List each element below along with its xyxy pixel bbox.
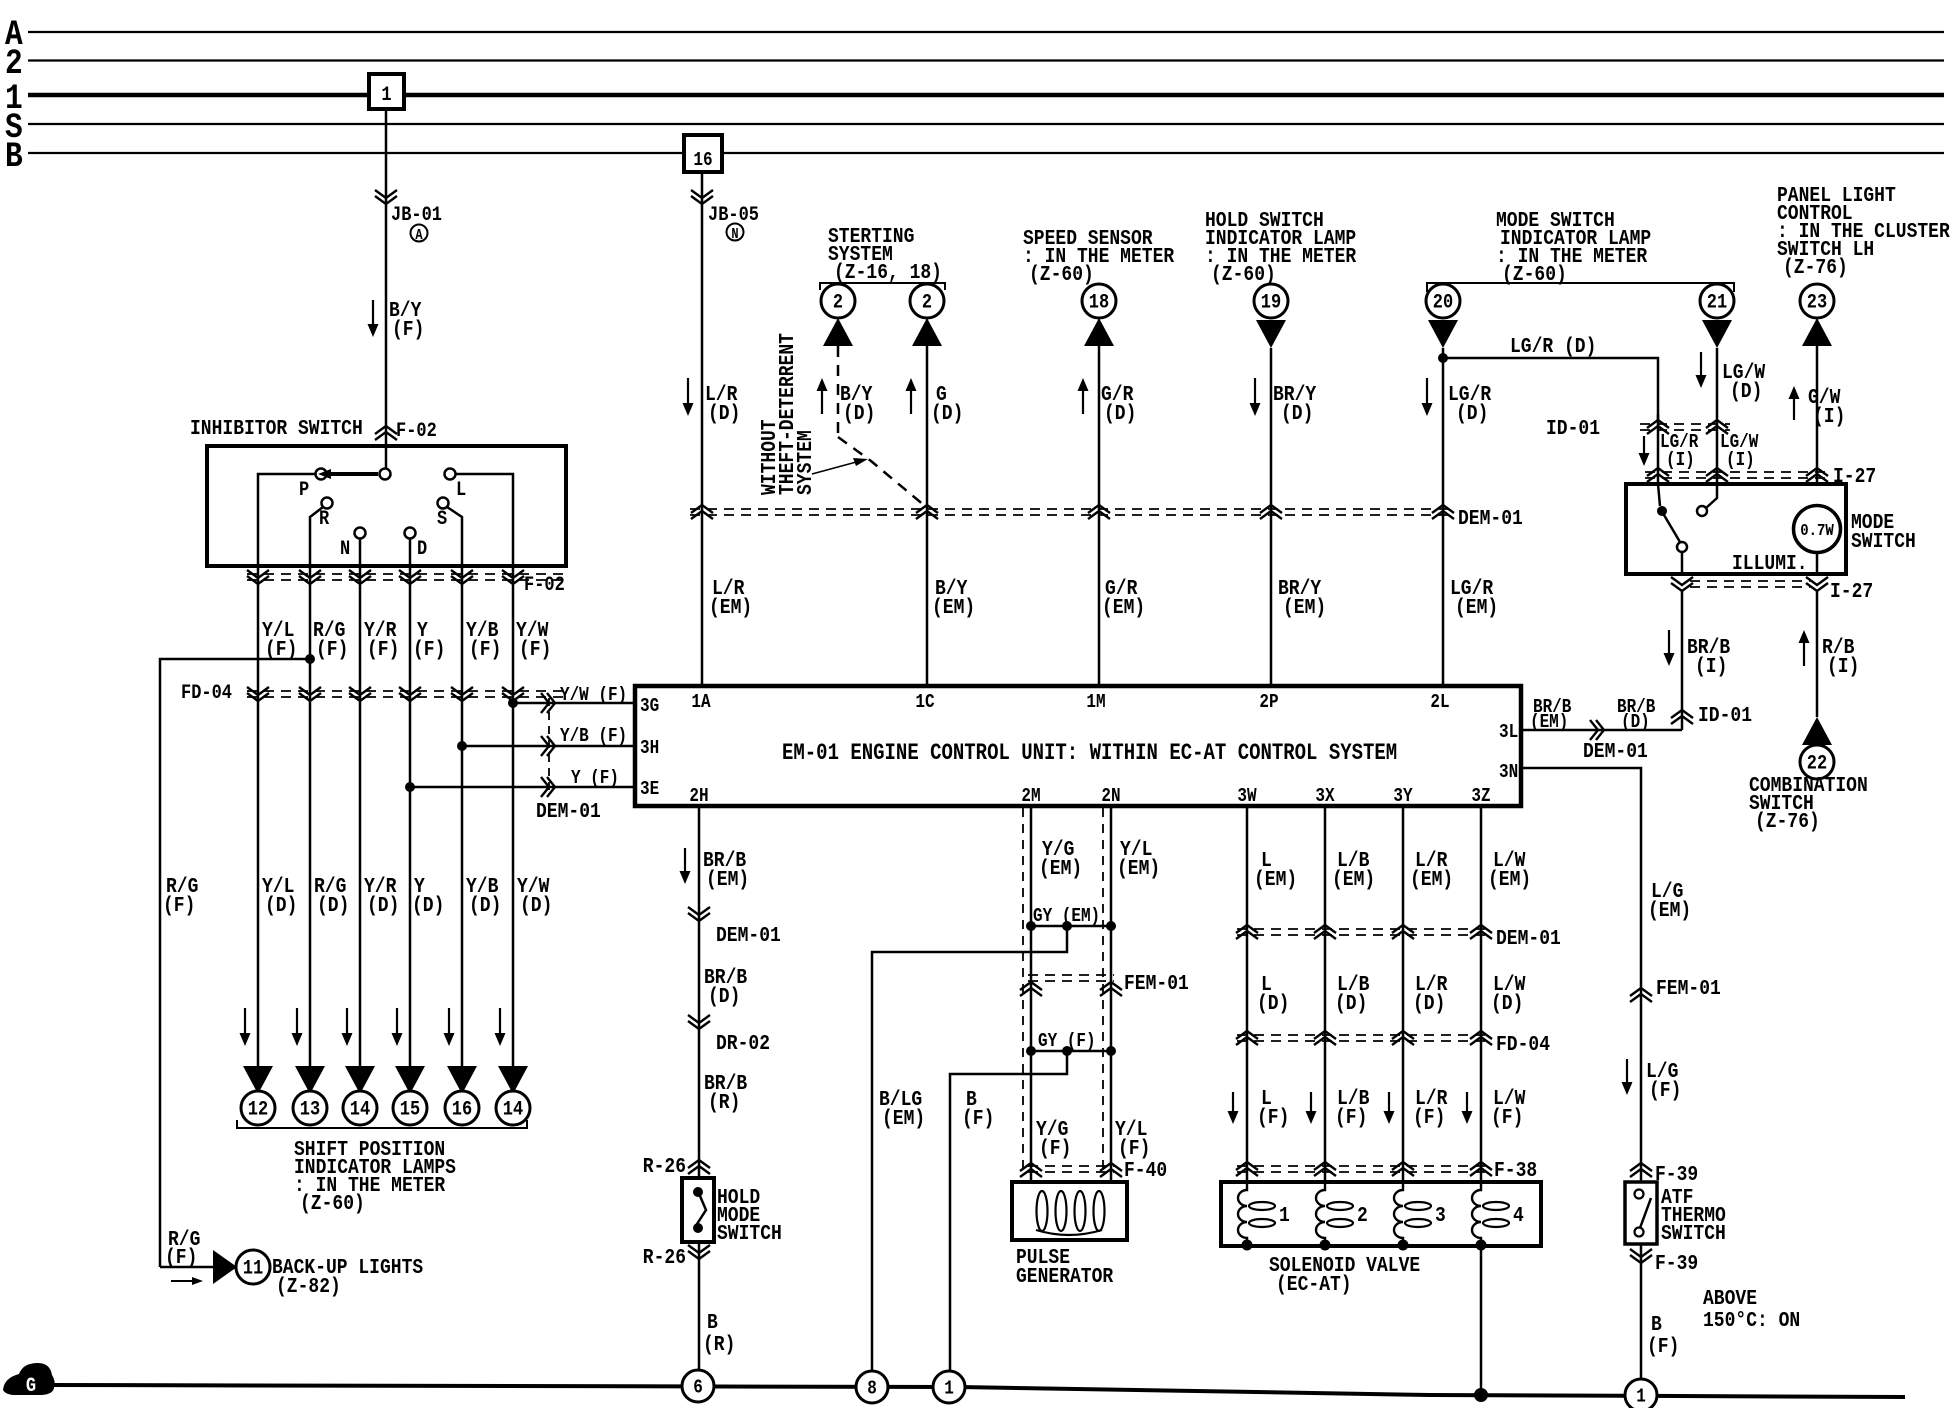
flow arrow lamp 14 bbox=[346, 1008, 348, 1037]
wire from pin 3N bbox=[1521, 768, 1641, 1182]
wire L to column 6 bbox=[456, 474, 513, 566]
terminal circle 22 bbox=[1800, 745, 1834, 779]
svg-text:SYSTEM: SYSTEM bbox=[793, 430, 818, 495]
svg-text:23: 23 bbox=[1807, 290, 1827, 314]
svg-text:(D): (D) bbox=[367, 893, 399, 918]
flow arrow L/W (F) bbox=[1466, 1092, 1468, 1115]
contact L bbox=[445, 469, 456, 480]
contact common bbox=[380, 469, 391, 480]
solenoid coil 1 bbox=[1238, 1182, 1247, 1244]
wire from 21 down to mode switch bbox=[1716, 348, 1719, 484]
ground circle 1 (pulse) bbox=[933, 1371, 965, 1403]
mode switch contact 2 open bbox=[1697, 506, 1707, 516]
svg-text:FEM-01: FEM-01 bbox=[1656, 976, 1721, 1001]
terminal circle 16 bbox=[445, 1091, 479, 1125]
svg-text:(EM): (EM) bbox=[1332, 867, 1375, 892]
svg-text:R-26: R-26 bbox=[643, 1245, 686, 1270]
wire solenoid to ground bbox=[1480, 1246, 1483, 1395]
ground symbol G (car body) bbox=[3, 1363, 55, 1395]
wire from fuse 1 down to inhibitor switch bbox=[385, 109, 388, 444]
connector line I-27 top bbox=[1645, 471, 1825, 473]
wire fuse 16 to pin 1A bbox=[701, 172, 704, 686]
svg-text:16: 16 bbox=[452, 1097, 472, 1121]
terminal circle 11 bbox=[236, 1250, 270, 1284]
wire N to column 3 bbox=[359, 539, 362, 566]
flow arrow lamp 14 bbox=[499, 1008, 501, 1037]
svg-text:(EM): (EM) bbox=[1283, 595, 1326, 620]
svg-text:Y (F): Y (F) bbox=[571, 768, 619, 790]
terminal circle 14 bbox=[343, 1091, 377, 1125]
junction Y/W to 3G bbox=[508, 698, 518, 708]
svg-text:(EM): (EM) bbox=[706, 867, 749, 892]
connector line DEM-01 main bbox=[690, 508, 1452, 510]
wire hold mode to ground bbox=[698, 1242, 701, 1370]
solenoid coil 2 bbox=[1316, 1182, 1325, 1244]
svg-text:15: 15 bbox=[400, 1097, 420, 1121]
svg-text:3X: 3X bbox=[1315, 786, 1335, 808]
connector R-26 chevron top bbox=[688, 1160, 710, 1168]
circled N bbox=[727, 224, 744, 241]
svg-text:S: S bbox=[437, 507, 447, 531]
wire ATF to ground bbox=[1640, 1244, 1643, 1380]
svg-text:16: 16 bbox=[693, 150, 712, 172]
solenoid bottom junction bbox=[1242, 1240, 1253, 1251]
wire to pin 2P bbox=[1270, 348, 1273, 686]
connector FD-04 chevron L/W bbox=[1470, 1031, 1492, 1039]
connector DEM-01 chevron L/R bbox=[1392, 925, 1414, 933]
dashed shield horizontals bbox=[1028, 974, 1114, 976]
junction R/G column bbox=[305, 654, 315, 664]
flow arrow lamp 12 bbox=[244, 1008, 246, 1037]
ATF contact top bbox=[1635, 1190, 1644, 1199]
junction Y to 3E bbox=[405, 782, 415, 792]
svg-text:8: 8 bbox=[867, 1378, 877, 1400]
bus line 1 (thick) bbox=[28, 93, 1944, 98]
wire pin L/R solenoid bbox=[1402, 806, 1405, 1182]
connector triangle up bbox=[912, 318, 942, 346]
solenoid coil 4 bbox=[1472, 1182, 1481, 1244]
lamp bottom wire bbox=[1816, 553, 1819, 574]
svg-text:(F): (F) bbox=[1335, 1105, 1367, 1130]
svg-text:3E: 3E bbox=[640, 779, 659, 801]
connector FD-04 chevron L/R bbox=[1392, 1031, 1414, 1039]
connector I-27 chevron LG/R bbox=[1647, 468, 1669, 476]
wire P to column 1 bbox=[258, 474, 315, 566]
wire R/B (I) bbox=[1816, 591, 1819, 717]
connector FEM-01 chevron bbox=[1630, 988, 1652, 996]
connector FD-04 chevron L/B bbox=[1314, 1031, 1336, 1039]
flow arrow LG/R (D) down bbox=[1426, 378, 1428, 407]
svg-text:(Z-76): (Z-76) bbox=[1755, 809, 1820, 834]
connector DEM-01 chevron x927 bbox=[916, 505, 938, 513]
pulse generator coil bbox=[1037, 1191, 1048, 1231]
wire pin 2M down bbox=[1030, 806, 1033, 1182]
flow arrow L/B (F) bbox=[1310, 1092, 1312, 1115]
svg-text:(EM): (EM) bbox=[1410, 867, 1453, 892]
connector triangle down bbox=[1428, 320, 1458, 348]
svg-text:(EC-AT): (EC-AT) bbox=[1276, 1272, 1352, 1297]
svg-text:(D): (D) bbox=[843, 401, 875, 426]
wire from pin 3L bbox=[1521, 729, 1682, 732]
svg-text:(D): (D) bbox=[1491, 991, 1523, 1016]
wire Y (F) to pin 3E bbox=[410, 786, 635, 789]
ATF switch arm bbox=[1640, 1198, 1651, 1228]
svg-text:20: 20 bbox=[1433, 290, 1453, 314]
svg-text:(F): (F) bbox=[1647, 1334, 1679, 1359]
inhibitor switch box bbox=[207, 446, 566, 566]
connector DEM-01 chevron 3H wire bbox=[541, 736, 549, 756]
connector F-02 chevron x360 bbox=[349, 576, 371, 584]
connector I-27 chevron R/B bbox=[1806, 583, 1828, 591]
svg-text:(F): (F) bbox=[469, 637, 501, 662]
wire pin 2N down bbox=[1110, 806, 1113, 1182]
svg-text:F-40: F-40 bbox=[1124, 1158, 1167, 1183]
wire to back-up lights bbox=[160, 1266, 213, 1269]
connector F-02 chevron x310 bbox=[299, 576, 321, 584]
svg-text:14: 14 bbox=[350, 1097, 370, 1121]
svg-text:3G: 3G bbox=[640, 696, 659, 718]
svg-text:(Z-60): (Z-60) bbox=[1029, 262, 1094, 287]
svg-text:GENERATOR: GENERATOR bbox=[1016, 1264, 1113, 1289]
wire to pin 1M bbox=[1098, 346, 1101, 686]
svg-text:(D): (D) bbox=[317, 893, 349, 918]
svg-text:FD-04: FD-04 bbox=[1496, 1032, 1550, 1057]
connector JB-01 chevron bbox=[375, 196, 397, 204]
svg-text:Y/W (F): Y/W (F) bbox=[560, 685, 627, 707]
connector line FD-04 solenoid bbox=[1237, 1034, 1492, 1036]
solenoid bottom junction bbox=[1398, 1240, 1409, 1251]
wire from arm down bbox=[1681, 552, 1684, 574]
svg-text:FD-04: FD-04 bbox=[181, 681, 232, 705]
terminal circle 2 (right) bbox=[910, 284, 944, 318]
connector F-38 chevron L bbox=[1236, 1162, 1258, 1170]
svg-text:(R): (R) bbox=[708, 1090, 740, 1115]
svg-text:2: 2 bbox=[833, 290, 843, 314]
connector I-27 chevron BR/B bbox=[1671, 583, 1693, 591]
solenoid valve box bbox=[1221, 1182, 1541, 1246]
svg-text:(I): (I) bbox=[1726, 450, 1755, 472]
connector F-39 chevron top bbox=[1630, 1163, 1652, 1171]
flow arrow B/Y (D) up bbox=[821, 387, 823, 414]
connector F-02 chevron x258 bbox=[247, 576, 269, 584]
flow arrow R/B (I) up bbox=[1803, 639, 1805, 666]
flow arrow lamp 16 bbox=[448, 1008, 450, 1037]
ATF thermo switch box bbox=[1625, 1182, 1657, 1244]
connector FD-04 chevron L bbox=[1236, 1031, 1258, 1039]
connector DEM-01 chevron x1443 bbox=[1432, 505, 1454, 513]
connector DEM-01 chevron 3E wire bbox=[541, 777, 549, 797]
svg-text:ID-01: ID-01 bbox=[1698, 703, 1752, 728]
svg-text:SWITCH: SWITCH bbox=[1661, 1221, 1726, 1246]
svg-text:18: 18 bbox=[1089, 290, 1109, 314]
svg-text:1M: 1M bbox=[1086, 692, 1105, 714]
svg-text:(D): (D) bbox=[1621, 712, 1650, 734]
svg-text:(D): (D) bbox=[1257, 991, 1289, 1016]
ground junction dot solenoid bbox=[1474, 1388, 1488, 1402]
connector FD-04 chevron x513 bbox=[502, 693, 524, 701]
GY (EM) jumper bbox=[1031, 925, 1111, 928]
svg-text:11: 11 bbox=[243, 1256, 263, 1280]
connector line F-38 bbox=[1237, 1165, 1492, 1167]
svg-text:(F): (F) bbox=[1491, 1105, 1523, 1130]
svg-text:2M: 2M bbox=[1021, 786, 1040, 808]
connector DEM-01 chevron L bbox=[1236, 925, 1258, 933]
contact S bbox=[438, 498, 449, 509]
svg-text:6: 6 bbox=[693, 1377, 703, 1399]
connector F-38 chevron L/R bbox=[1392, 1162, 1414, 1170]
solenoid coil 3 bbox=[1394, 1182, 1403, 1244]
wire R to column 2 bbox=[310, 507, 323, 566]
column wire Y bbox=[409, 566, 412, 1066]
svg-text:2L: 2L bbox=[1430, 692, 1449, 714]
connector ID-01 chevron LG/W bbox=[1706, 420, 1728, 428]
wire pin 2H down bbox=[698, 806, 701, 1178]
connector DR-02 chevron bbox=[688, 1021, 710, 1029]
wire BR/B (I) bbox=[1681, 591, 1684, 730]
connector FD-04 chevron x310 bbox=[299, 693, 321, 701]
flow arrow LG/W (D) down bbox=[1700, 352, 1702, 379]
connector triangle down bbox=[1256, 320, 1286, 348]
svg-text:(Z-76): (Z-76) bbox=[1783, 255, 1848, 280]
dashed wire B/Y (D) without theft-deterrent bbox=[837, 346, 840, 437]
thin pointer arrow bbox=[812, 461, 860, 474]
connector line FD-04 bbox=[247, 690, 568, 692]
svg-text:3L: 3L bbox=[1499, 722, 1518, 744]
connector R-26 chevron bottom bbox=[688, 1251, 710, 1259]
svg-text:2: 2 bbox=[922, 290, 932, 314]
svg-text:SWITCH: SWITCH bbox=[1851, 529, 1916, 554]
svg-text:DEM-01: DEM-01 bbox=[716, 923, 781, 948]
svg-text:2: 2 bbox=[1357, 1203, 1368, 1228]
mode switch box bbox=[1626, 484, 1846, 574]
branch to B/LG wire bbox=[872, 926, 1067, 1370]
connector F-02 chevron x410 bbox=[399, 576, 421, 584]
hold mode switch box bbox=[682, 1178, 714, 1242]
dashed shield left of 2M wire bbox=[1022, 808, 1024, 1168]
svg-text:(F): (F) bbox=[367, 637, 399, 662]
svg-text:1C: 1C bbox=[915, 692, 935, 714]
terminal circle 19 bbox=[1254, 284, 1288, 318]
pulse generator box bbox=[1012, 1182, 1127, 1240]
connector F-38 chevron L/W bbox=[1470, 1162, 1492, 1170]
connector line ID-01 bbox=[1640, 423, 1730, 425]
svg-text:3Y: 3Y bbox=[1393, 786, 1413, 808]
connector F-38 chevron L/B bbox=[1314, 1162, 1336, 1170]
svg-text:(I): (I) bbox=[1813, 404, 1845, 429]
wire S to column 5 bbox=[447, 507, 462, 566]
connector F-02 chevron above inhibitor switch bbox=[375, 426, 397, 434]
connector F-02 chevron x513 bbox=[502, 576, 524, 584]
flow arrow BR/B (I) down bbox=[1668, 630, 1670, 657]
svg-text:(Z-82): (Z-82) bbox=[276, 1274, 341, 1299]
svg-text:ILLUMI.: ILLUMI. bbox=[1732, 551, 1808, 576]
svg-text:A: A bbox=[415, 227, 422, 243]
wire circle 23 down to mode switch box bbox=[1816, 346, 1819, 506]
bus line S bbox=[28, 123, 1944, 125]
connector triangle up bbox=[823, 318, 853, 346]
svg-text:F-39: F-39 bbox=[1655, 1162, 1698, 1187]
svg-text:(D): (D) bbox=[1335, 991, 1367, 1016]
connector FD-04 chevron x360 bbox=[349, 693, 371, 701]
flow arrow B/Y (F) bbox=[372, 300, 374, 328]
flow arrow L/G (F) down bbox=[1626, 1059, 1628, 1086]
column wire Y/B bbox=[461, 566, 464, 1066]
flow arrow LG/R (I) down bbox=[1643, 436, 1645, 457]
svg-text:1: 1 bbox=[1636, 1386, 1646, 1408]
contact P bbox=[316, 469, 327, 480]
svg-text:(D): (D) bbox=[1413, 991, 1445, 1016]
mode switch arm bbox=[1664, 515, 1680, 542]
svg-text:(I): (I) bbox=[1695, 654, 1727, 679]
connector line F-02 below inhibitor switch bbox=[247, 573, 568, 575]
connector FD-04 chevron x258 bbox=[247, 693, 269, 701]
svg-text:Y/B (F): Y/B (F) bbox=[560, 726, 627, 748]
svg-text:N: N bbox=[340, 537, 350, 561]
svg-text:(D): (D) bbox=[1281, 401, 1313, 426]
flow arrow BR/Y (D) down bbox=[1254, 378, 1256, 407]
connector DEM-01 chevron 2H bbox=[688, 913, 710, 921]
terminal circle 2 (left) bbox=[821, 284, 855, 318]
svg-text:(F): (F) bbox=[962, 1106, 994, 1131]
connector triangle up bbox=[1084, 318, 1114, 346]
svg-text:(Z-16, 18): (Z-16, 18) bbox=[834, 260, 942, 285]
connector triangle up combination switch bbox=[1802, 717, 1832, 745]
wire Y/B (F) to pin 3H bbox=[462, 745, 635, 748]
contact N bbox=[355, 528, 366, 539]
flow arrow G (D) up bbox=[910, 387, 912, 414]
svg-text:1: 1 bbox=[381, 83, 391, 107]
svg-text:(F): (F) bbox=[392, 317, 424, 342]
svg-text:19: 19 bbox=[1261, 290, 1281, 314]
svg-text:DR-02: DR-02 bbox=[716, 1031, 770, 1056]
svg-text:D: D bbox=[417, 537, 427, 561]
svg-text:22: 22 bbox=[1807, 751, 1827, 775]
ground circle 6 bbox=[682, 1370, 714, 1402]
svg-text:(D): (D) bbox=[1456, 401, 1488, 426]
connector F-39 chevron bottom bbox=[1630, 1255, 1652, 1263]
svg-text:(D): (D) bbox=[469, 893, 501, 918]
wire to pin 2L bbox=[1442, 348, 1445, 686]
flow arrow L/R (F) bbox=[1388, 1092, 1390, 1115]
bracket shift position lamps bbox=[237, 1120, 527, 1128]
svg-text:13: 13 bbox=[300, 1097, 320, 1121]
connector FD-04 chevron x462 bbox=[451, 693, 473, 701]
bracket mode switch indicator bbox=[1427, 283, 1734, 292]
connector DEM-01 chevron on 3L wire bbox=[1590, 720, 1598, 740]
connector I-27 chevron G/W bbox=[1806, 468, 1828, 476]
connector F-40 chevron 2M bbox=[1020, 1163, 1042, 1171]
terminal circle 23 bbox=[1800, 284, 1834, 318]
connector triangle right back-up bbox=[213, 1250, 237, 1284]
connector DEM-01 chevron x1271 bbox=[1260, 505, 1282, 513]
connector triangle down lamp 14 bbox=[498, 1066, 528, 1094]
svg-text:F-39: F-39 bbox=[1655, 1251, 1698, 1276]
junction Y/B to 3H bbox=[457, 741, 467, 751]
svg-text:F-02: F-02 bbox=[396, 419, 437, 443]
svg-text:L: L bbox=[456, 478, 466, 502]
wire LG/R (D) horizontal bbox=[1443, 358, 1658, 420]
svg-text:(F): (F) bbox=[1649, 1078, 1681, 1103]
GY (F) jumper bbox=[1031, 1050, 1111, 1053]
svg-text:3W: 3W bbox=[1237, 786, 1257, 808]
svg-text:1: 1 bbox=[944, 1378, 954, 1400]
svg-text:I-27: I-27 bbox=[1830, 579, 1873, 604]
terminal circle 18 bbox=[1082, 284, 1116, 318]
wire pin L solenoid bbox=[1246, 806, 1249, 1182]
connector F-40 chevron 2N bbox=[1100, 1163, 1122, 1171]
fuse 16 on bus line B bbox=[684, 135, 722, 172]
column wire Y/L bbox=[257, 566, 260, 1066]
flow arrow BR/B (EM) down bbox=[684, 848, 686, 875]
svg-text:(EM): (EM) bbox=[1648, 898, 1691, 923]
svg-text:R-26: R-26 bbox=[643, 1154, 686, 1179]
svg-text:(EM): (EM) bbox=[709, 595, 752, 620]
connector DEM-01 chevron x1099 bbox=[1088, 505, 1110, 513]
mode switch right wire into box bbox=[1706, 484, 1717, 508]
solenoid bottom junction bbox=[1320, 1240, 1331, 1251]
svg-text:ID-01: ID-01 bbox=[1546, 416, 1600, 441]
contact D bbox=[405, 528, 416, 539]
svg-text:B: B bbox=[5, 137, 23, 177]
svg-text:3: 3 bbox=[1435, 1203, 1446, 1228]
branch to B (F) wire bbox=[950, 1051, 1067, 1370]
svg-text:(D): (D) bbox=[708, 984, 740, 1009]
hold mode contact top bbox=[693, 1187, 703, 1197]
svg-text:(EM): (EM) bbox=[1039, 856, 1082, 881]
connector F-02 chevron x462 bbox=[451, 576, 473, 584]
svg-text:DEM-01: DEM-01 bbox=[1583, 739, 1648, 764]
connector I-27 chevron LG/W bbox=[1706, 468, 1728, 476]
svg-text:DEM-01: DEM-01 bbox=[536, 799, 601, 824]
svg-text:2H: 2H bbox=[689, 786, 708, 808]
connector line DEM-01 solenoid bbox=[1237, 928, 1492, 930]
flow arrow L (F) bbox=[1232, 1092, 1234, 1115]
wire to pin 1C bbox=[926, 346, 929, 686]
connector DEM-01 chevron x702 bbox=[691, 505, 713, 513]
svg-text:(F): (F) bbox=[1413, 1105, 1445, 1130]
mode switch contact (closed) bbox=[1657, 506, 1667, 516]
svg-text:F-02: F-02 bbox=[524, 573, 565, 597]
svg-text:P: P bbox=[299, 478, 309, 502]
hold mode contact bottom bbox=[693, 1223, 703, 1233]
bracket starting system bbox=[820, 283, 945, 290]
DEM-01 dashed vertical at ECU left taps bbox=[548, 698, 550, 795]
wire D to column 4 bbox=[409, 539, 412, 566]
svg-text:(D): (D) bbox=[412, 893, 444, 918]
svg-text:150°C: ON: 150°C: ON bbox=[1703, 1308, 1800, 1333]
svg-text:(EM): (EM) bbox=[1488, 867, 1531, 892]
flow arrow lamp 13 bbox=[296, 1008, 298, 1037]
connector FEM-01 chevron 2M bbox=[1020, 982, 1042, 990]
connector triangle down lamp 14 bbox=[345, 1066, 375, 1094]
svg-text:(D): (D) bbox=[1104, 401, 1136, 426]
connector line I-27 bottom bbox=[1690, 580, 1810, 582]
column wire R/G bbox=[309, 566, 312, 1066]
wire pin L/W solenoid bbox=[1480, 806, 1483, 1182]
svg-text:4: 4 bbox=[1513, 1203, 1524, 1228]
connector FD-04 chevron x410 bbox=[399, 693, 421, 701]
ground circle 8 bbox=[856, 1371, 888, 1403]
mode switch left wire into box bbox=[1658, 484, 1660, 506]
bus line 2 bbox=[28, 59, 1944, 61]
svg-text:(R): (R) bbox=[703, 1332, 735, 1357]
terminal circle 15 bbox=[393, 1091, 427, 1125]
svg-text:(D): (D) bbox=[520, 893, 552, 918]
svg-text:(EM): (EM) bbox=[1117, 856, 1160, 881]
svg-text:(Z-60): (Z-60) bbox=[300, 1191, 365, 1216]
terminal circle 21 bbox=[1700, 284, 1734, 318]
svg-text:(EM): (EM) bbox=[932, 595, 975, 620]
